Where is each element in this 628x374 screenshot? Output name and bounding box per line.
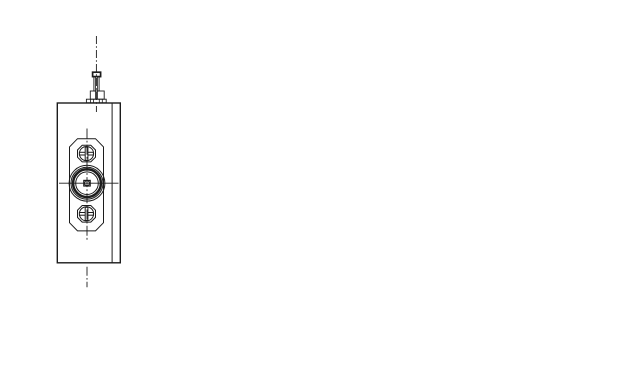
side view connector flange outline (70, 139, 104, 231)
side view connector J1 face circles (69, 165, 105, 201)
side view pin centerline (95, 36, 97, 112)
side view horizontal centerline (59, 182, 119, 184)
side view feed-thru pin P1 (86, 72, 106, 103)
side view bottom screw S2 boss (78, 206, 96, 223)
side view body outline (57, 103, 120, 263)
side view cover line (111, 103, 113, 263)
side view vertical centerline (86, 129, 88, 241)
side view top screw S1 boss (78, 145, 96, 162)
side view centerline extension below (86, 267, 88, 287)
